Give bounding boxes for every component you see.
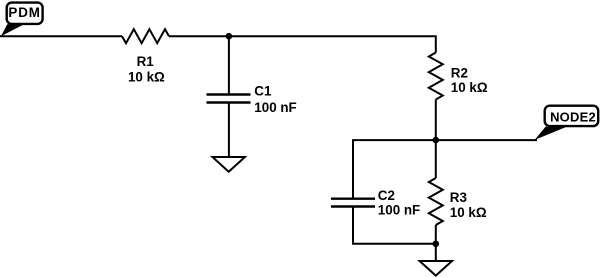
capacitor C1 [207,95,251,103]
resistor R1 [122,29,169,43]
svg-text:10 kΩ: 10 kΩ [450,205,487,220]
wire node A to C1 [228,36,230,94]
wire R1 to node A to R2 [169,36,436,52]
svg-text:100 nF: 100 nF [254,100,296,115]
resistor R2 [429,53,443,100]
svg-text:C2: C2 [378,188,395,203]
svg-text:R3: R3 [450,190,467,205]
svg-text:C1: C1 [254,84,272,99]
wire NODE2 rail to C2 [353,140,436,199]
wire PDM to R1 [0,35,122,37]
svg-text:R2: R2 [451,65,468,80]
wire NODE2 to R3 [435,140,437,178]
svg-text:100 nF: 100 nF [378,203,420,218]
junction node A [226,33,233,40]
svg-text:R1: R1 [137,54,155,69]
svg-text:NODE2: NODE2 [550,110,596,125]
svg-text:PDM: PDM [8,5,40,20]
resistor R3 [429,178,443,225]
junction ground node [433,241,440,248]
ground GND1 [213,157,245,172]
svg-text:10 kΩ: 10 kΩ [128,70,165,85]
capacitor C2 [331,199,375,207]
wire R2 to node NODE2 [435,100,437,141]
wire junction to ground [435,244,437,261]
svg-text:10 kΩ: 10 kΩ [451,80,488,95]
wire NODE2 rail to label [436,139,537,141]
node PDM flag [1,3,43,37]
ground GND2 [420,261,452,276]
node NODE2 flag [535,106,599,140]
junction NODE2 [433,137,440,144]
wire R3 to ground junction [435,225,437,244]
wire C2 to bottom junction [353,207,436,244]
wire C1 to ground [228,103,230,158]
